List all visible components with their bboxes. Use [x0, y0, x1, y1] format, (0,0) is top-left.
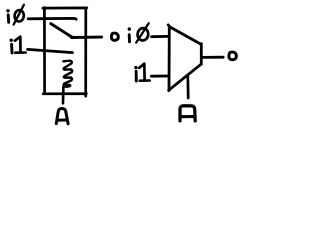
label A (left select)	[56, 108, 68, 123]
label A (right select)	[180, 106, 195, 121]
wire A stub (right select)	[186, 75, 189, 98]
label i0 (right mux input 0)	[128, 23, 149, 42]
wire i1 (right)	[151, 75, 168, 78]
mux trapezoid body (right mux)	[168, 25, 201, 91]
label i1 (right mux input 1)	[134, 64, 150, 81]
wire i0 (left)	[28, 17, 76, 21]
label i1 (left mux input 1)	[10, 37, 26, 53]
wire i1 (left)	[28, 49, 73, 52]
relay box (left mux body)	[43, 8, 87, 97]
label o (left output)	[111, 33, 118, 40]
switch arm (pole)	[51, 24, 73, 38]
label o (right output)	[229, 52, 236, 60]
wire o (right output)	[202, 56, 223, 59]
wire i0 (right)	[152, 35, 169, 38]
relay coil	[63, 61, 72, 87]
wire A stub (left select, through box bottom)	[62, 87, 65, 104]
wire o (left output)	[72, 36, 102, 39]
label i0 (left mux input 0)	[6, 5, 24, 25]
